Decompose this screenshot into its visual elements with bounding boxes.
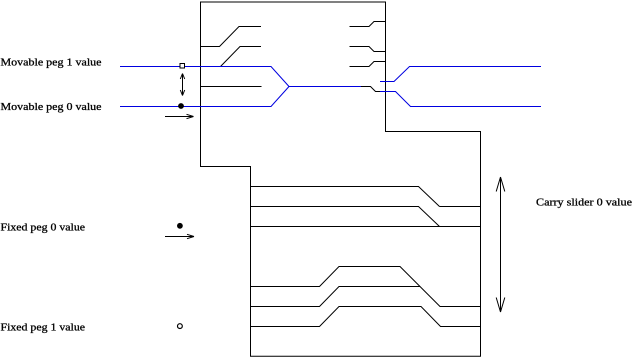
marker fixed peg 1 (open circle) (178, 324, 183, 329)
wire output lower (blue) (380, 92, 541, 107)
enclosure outline (staircase body of channel block) (201, 2, 481, 356)
svg-text:Carry slider 0 value: Carry slider 0 value (536, 197, 632, 209)
marker fixed peg 0 (filled dot) (177, 223, 183, 229)
wire movable peg 1 value (blue) (120, 67, 289, 87)
channel step upper-right C (350, 62, 386, 67)
channel output step (361, 87, 386, 92)
svg-text:Movable peg 0 value: Movable peg 0 value (1, 101, 102, 113)
arrow horizontal fixed peg 0 (165, 234, 194, 238)
carry slider track line 2 right segment (440, 206, 481, 208)
svg-text:Movable peg 1 value: Movable peg 1 value (1, 57, 102, 69)
svg-text:Fixed peg 0 value: Fixed peg 0 value (1, 222, 86, 234)
carry slider track line 2 (251, 207, 440, 227)
channel step upper-right B (350, 47, 386, 52)
wire merged value (blue) (289, 86, 361, 88)
arrow vertical carry slider travel (496, 177, 505, 312)
svg-text:Fixed peg 1 value: Fixed peg 1 value (1, 322, 86, 334)
channel step upper-left 2 (221, 47, 262, 67)
arrow vertical small (peg travel) (180, 74, 184, 96)
arrow horizontal movable peg 0 (165, 114, 194, 118)
marker movable peg 1 (open square) (180, 64, 185, 69)
channel step upper-right A (350, 22, 386, 27)
lower track bump line B (251, 287, 421, 307)
marker movable peg 0 (filled dot) (178, 103, 184, 109)
channel step upper-left 1 (201, 27, 262, 47)
lower track bump line A (251, 267, 481, 307)
wire movable peg 0 value (blue) (120, 87, 289, 107)
wire output upper (blue) (380, 67, 541, 82)
carry slider track line 3 (251, 226, 481, 228)
channel center slot line (201, 86, 262, 88)
lower track bump line C (251, 307, 481, 327)
carry slider track line 1 (251, 187, 440, 207)
